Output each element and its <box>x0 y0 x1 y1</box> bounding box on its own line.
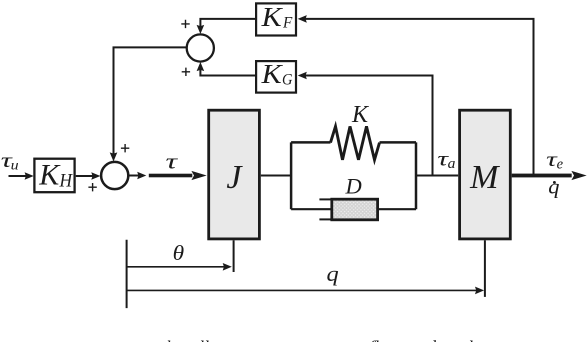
wire M bottom stem <box>484 240 486 297</box>
svg-text:K: K <box>261 59 284 89</box>
svg-text:ll: ll <box>199 337 209 342</box>
svg-text:G: G <box>282 71 293 88</box>
svg-text:l: l <box>468 337 473 342</box>
svg-text:d: d <box>427 337 437 342</box>
wire top summing junction output to main summing junction <box>114 47 187 154</box>
svg-text:θ: θ <box>173 241 185 265</box>
arrowhead of tau_u input <box>25 172 34 180</box>
svg-text:J: J <box>226 159 243 196</box>
arrowhead up into top summing junction <box>197 62 205 71</box>
summing junction S1 (main) <box>101 162 128 189</box>
plus sign lower-left of top junction <box>182 68 190 76</box>
damper D piston box <box>332 199 378 220</box>
wire theta measurement arrow <box>127 266 225 268</box>
wire q measurement arrow <box>127 289 477 291</box>
thick arrow tau into J <box>149 171 207 180</box>
wire K_G feedback from tau_a line up and left <box>305 76 433 176</box>
svg-text:fl: fl <box>369 337 379 342</box>
wire top branch to spring <box>291 141 330 144</box>
arrowhead of theta arrow <box>223 263 232 271</box>
svg-text:q: q <box>548 177 559 199</box>
svg-text:F: F <box>282 14 293 31</box>
block M <box>460 110 511 239</box>
svg-text:H: H <box>59 171 74 192</box>
svg-text:K: K <box>38 159 61 192</box>
plus sign left of main junction <box>88 183 96 191</box>
plus sign above main junction <box>121 144 129 152</box>
wire K_F output to top summing junction <box>200 19 255 27</box>
summing junction S2 (top) <box>187 34 214 61</box>
plus sign upper-left of top junction <box>181 20 189 28</box>
block K_H <box>34 159 74 193</box>
wire tau_u input arrow <box>9 175 28 177</box>
node left rail of spring-damper parallel pair <box>290 142 293 209</box>
svg-text:th: th <box>161 337 175 342</box>
wire theta reference vertical <box>126 240 128 308</box>
arrowhead main summing junction output <box>137 172 146 180</box>
svg-text:D: D <box>345 174 362 199</box>
arrowhead of q arrow <box>475 287 484 295</box>
arrowhead K_H into main summing junction <box>91 172 100 180</box>
svg-text:e: e <box>557 157 564 173</box>
block K_G <box>256 61 296 93</box>
wire J output to spring-damper left rail <box>261 175 291 177</box>
arrowhead down into top summing junction <box>197 25 205 34</box>
caption fragment at bottom edge <box>161 337 473 342</box>
damper cylinder bottom stub <box>319 218 331 220</box>
svg-text:M: M <box>469 159 500 196</box>
arrowhead down into main summing junction <box>110 152 118 161</box>
wire K_H to main summing junction <box>76 175 94 177</box>
block J <box>209 110 260 239</box>
wire K_G output to top summing junction <box>200 70 255 76</box>
spring K zigzag <box>331 126 380 159</box>
wire damper to bottom-right corner <box>378 208 416 210</box>
svg-text:u: u <box>11 158 19 173</box>
arrowhead into K_G <box>298 72 307 80</box>
arrowhead into K_F <box>298 15 307 23</box>
wire K_F feedback from tau_e line up and left <box>305 19 534 176</box>
node right rail of spring-damper parallel pair <box>415 142 418 209</box>
svg-text:t: t <box>230 337 236 342</box>
damper cylinder top stub <box>319 198 331 200</box>
wire bottom branch to damper rod <box>291 208 331 210</box>
svg-text:K: K <box>261 2 284 32</box>
wire J bottom stem <box>233 240 235 272</box>
thick arrow tau_e out of M <box>512 171 587 180</box>
svg-text:a: a <box>448 156 456 172</box>
wire spring-damper right rail to M <box>416 175 458 177</box>
svg-text:q: q <box>327 261 339 286</box>
wire main summing junction output <box>129 175 139 177</box>
wire spring to top-right corner <box>380 141 417 144</box>
svg-text:τ: τ <box>166 149 179 174</box>
block K_F <box>256 3 296 35</box>
svg-text:K: K <box>351 102 370 128</box>
